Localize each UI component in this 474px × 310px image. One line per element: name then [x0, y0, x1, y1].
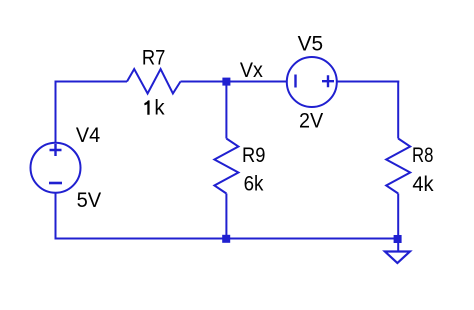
resistor R7: [127, 69, 181, 94]
svg-text:6k: 6k: [244, 173, 264, 196]
svg-text:k: k: [154, 97, 165, 120]
wire middle vertical upper: [225, 82, 227, 139]
wire left vertical upper: [55, 81, 57, 143]
wire right vertical upper: [397, 81, 399, 139]
svg-text:R7: R7: [142, 46, 166, 69]
junction node at ground: [394, 235, 402, 243]
svg-text:2V: 2V: [299, 110, 323, 133]
wire bottom horizontal: [55, 238, 399, 240]
voltage source V5 plus sign: [322, 75, 334, 87]
voltage source V4 circle: [31, 143, 81, 193]
resistor R9: [214, 139, 238, 194]
svg-text:V4: V4: [76, 124, 101, 147]
wire top right horizontal: [337, 81, 400, 83]
voltage source V5 minus terminal bar: [294, 75, 296, 88]
wire right vertical lower: [397, 194, 399, 252]
svg-text:5V: 5V: [77, 189, 102, 212]
resistor R7 value 1k: [144, 100, 149, 114]
voltage source V4 minus sign: [49, 182, 62, 185]
svg-text:R8: R8: [412, 144, 433, 167]
resistor R8: [386, 139, 410, 194]
junction node at Vx: [222, 78, 230, 86]
svg-text:R9: R9: [242, 144, 265, 167]
wire left vertical lower: [55, 193, 57, 239]
svg-text:Vx: Vx: [240, 59, 263, 82]
junction node bottom middle: [222, 235, 230, 243]
voltage source V4 plus sign: [50, 144, 62, 156]
ground symbol triangle: [385, 252, 410, 264]
wire top middle horizontal: [181, 81, 288, 83]
wire middle vertical lower: [225, 194, 227, 239]
svg-text:V5: V5: [298, 33, 324, 56]
svg-text:4k: 4k: [412, 173, 434, 196]
voltage source V5 circle: [287, 57, 337, 107]
wire top-left horizontal: [56, 81, 128, 83]
